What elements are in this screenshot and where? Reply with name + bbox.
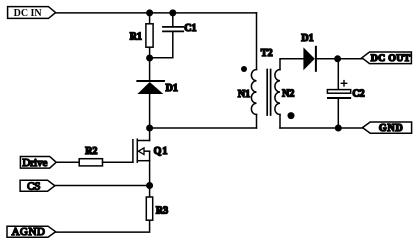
- wire: primary top lead: [256, 13, 258, 70]
- svg-text:CS: CS: [27, 180, 40, 192]
- svg-text:DC OUT: DC OUT: [371, 53, 411, 64]
- resistor R3: [146, 197, 152, 220]
- svg-text:T2: T2: [261, 48, 273, 59]
- wire: CS to source node: [55, 185, 150, 187]
- wire: R1 bottom to D1 cathode: [149, 47, 151, 81]
- port tag AGND: [7, 226, 56, 238]
- plus mark of C2: [341, 81, 346, 86]
- svg-text:N2: N2: [282, 88, 294, 99]
- junction DC OUT node: [334, 55, 341, 62]
- svg-text:C2: C2: [352, 89, 364, 100]
- junction at R1 top: [146, 9, 153, 16]
- wire: DC IN top rail: [56, 12, 257, 14]
- wire: rectifier cathode to DC OUT: [316, 58, 362, 60]
- svg-text:AGND: AGND: [12, 226, 46, 238]
- svg-text:D1: D1: [166, 83, 178, 94]
- svg-text:R3: R3: [156, 205, 168, 216]
- resistor R2: [79, 159, 102, 166]
- diode D1 (snubber clamp): [137, 81, 164, 94]
- diode D1 (output rectifier): [303, 47, 316, 71]
- wire: secondary return rail to GND: [280, 127, 363, 129]
- wire: secondary bottom lead: [279, 115, 281, 129]
- resistor R1: [146, 24, 153, 47]
- wire: C1 bottom lead down and left to node: [150, 31, 173, 57]
- port tag GND: [363, 122, 412, 134]
- capacitor C1: [163, 27, 183, 32]
- svg-text:N1: N1: [238, 89, 250, 100]
- junction at C1 top: [169, 9, 176, 16]
- polarity dot secondary: [288, 112, 295, 119]
- wire: R2 to gate: [103, 161, 133, 163]
- svg-text:DC IN: DC IN: [14, 8, 43, 19]
- wire: source node to R3: [149, 186, 151, 198]
- junction R1/C1 bottom node: [146, 55, 153, 62]
- svg-text:GND: GND: [379, 123, 404, 134]
- junction drain node: [146, 125, 153, 132]
- transformer T2 secondary winding N2: [275, 70, 280, 115]
- transformer T2 primary winding N1: [251, 70, 256, 115]
- capacitor C2 (polarized): [327, 90, 350, 98]
- port tag DC OUT: [362, 52, 412, 64]
- wire: D1 anode down to drain node: [149, 94, 151, 128]
- svg-text:Drive: Drive: [22, 157, 47, 169]
- svg-text:D1: D1: [301, 33, 313, 44]
- wire: R1 top lead: [149, 13, 151, 24]
- wire: R3 bottom to AGND rail: [56, 220, 150, 232]
- polarity dot primary: [241, 66, 247, 72]
- wire: secondary top lead: [280, 59, 303, 70]
- transformer core: [267, 70, 270, 116]
- svg-text:R2: R2: [85, 146, 97, 157]
- wire: drain node to transformer primary bottom: [150, 127, 257, 129]
- port tag CS: [20, 180, 55, 192]
- svg-text:C1: C1: [184, 23, 196, 34]
- svg-text:R1: R1: [130, 32, 142, 43]
- wire: C2 top lead: [337, 59, 339, 90]
- junction source node: [146, 182, 153, 189]
- wire: C1 top lead: [172, 13, 174, 26]
- port tag DC IN: [8, 7, 56, 19]
- port tag Drive: [20, 157, 56, 169]
- junction GND node: [335, 125, 342, 132]
- wire: C2 bottom lead: [337, 98, 339, 128]
- wire: Drive to R2: [56, 161, 79, 163]
- wire: primary bottom lead: [256, 115, 258, 129]
- svg-text:Q1: Q1: [154, 146, 169, 157]
- transistor Q1 (N-MOSFET): [133, 128, 150, 186]
